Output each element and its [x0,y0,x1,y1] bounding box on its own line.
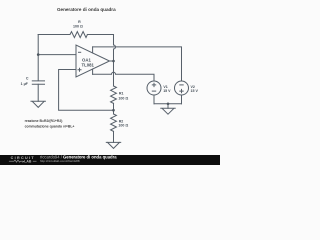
svg-text:http://circuitlab.com/c6wr4x88: http://circuitlab.com/c6wr4x88 [40,159,80,163]
wire: left vertical (cap/minus node) [37,35,39,81]
svg-text:▸LAB: ▸LAB [22,160,32,164]
ground (supplies) [161,108,175,114]
svg-text:15 V: 15 V [163,89,171,93]
svg-text:C: C [26,76,29,80]
svg-text:Generatore di onda quadra: Generatore di onda quadra [57,7,116,12]
wire: V2 bottom lead [181,95,183,104]
wire: cap bottom to ground [37,84,39,101]
node dot: output junction [112,60,115,63]
wire: supply ground bus [154,103,182,105]
wire: R2 top lead [113,110,115,114]
ground (R2) [106,142,120,148]
op-amp U1 triangle [76,45,110,77]
V2 minus sign [179,84,183,86]
logo trailing line [33,160,37,162]
wire: top feedback right segment [87,34,113,36]
wire: R2 bottom to ground [113,131,115,142]
wire: top feedback left segment [38,34,70,36]
op-amp V- power stub (top) [92,47,94,53]
svg-text:15 V: 15 V [191,89,199,93]
wire: V- rail horizontal to V2 [93,47,182,81]
svg-text:TL081: TL081 [82,63,95,68]
wire: R1 bottom to node [113,103,115,110]
svg-text:1 µF: 1 µF [21,82,29,86]
CircuitLab logo: zigzag + LAB [9,160,22,162]
wire: minus input horizontal [38,54,76,56]
wire: output stub from apex [110,60,114,62]
svg-text:V1: V1 [163,85,167,89]
wire: divider node left + up to plus input [59,70,114,111]
svg-text:commutazione quando vi=BL+: commutazione quando vi=BL+ [25,124,75,128]
wire: V1 bottom lead [153,95,155,104]
resistor R (zigzag) [70,32,87,38]
capacitor C plates [32,81,44,84]
node dot: minus/cap junction [37,53,40,56]
ground (capacitor) [31,101,45,107]
watermark bar [0,155,220,165]
svg-text:100 Ω: 100 Ω [73,24,83,28]
source V2 circle [175,81,189,95]
svg-text:R1: R1 [119,91,124,95]
wire: ground stem (supplies) [167,104,169,109]
op-amp plus input sign [78,68,82,72]
svg-text:V2: V2 [191,85,195,89]
node dot: supply ground junction [167,103,170,106]
op-amp minus input sign [78,51,81,53]
resistor R1 (vertical zigzag) [111,86,117,103]
source V1 circle [147,81,161,95]
V1 minus sign [152,90,156,92]
V1 plus sign [152,83,156,87]
wire: V+ rail horizontal to V1 (with hop over vertical) [93,72,154,81]
svg-text:100 Ω: 100 Ω [118,96,128,100]
V2 plus sign [179,89,183,93]
op-amp V+ power stub (bottom) [92,69,94,74]
svg-text:100 Ω: 100 Ω [118,124,128,128]
wire: main output vertical with hop right at y=47 [114,35,116,87]
svg-text:reazione B=R2/(R1+R2): reazione B=R2/(R1+R2) [25,119,63,123]
node dot: divider junction [112,109,115,112]
resistor R2 (vertical zigzag) [111,114,117,131]
